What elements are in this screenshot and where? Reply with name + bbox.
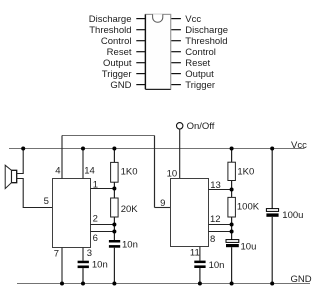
pin stub right 5 (171, 62, 181, 64)
svg-text:Reset: Reset (107, 47, 132, 58)
svg-text:4: 4 (55, 165, 60, 176)
junction dot pin1 node (112, 187, 116, 191)
svg-text:100K: 100K (237, 202, 260, 213)
junction dot C1/GND (112, 282, 116, 286)
svg-text:10n: 10n (122, 240, 138, 251)
pin 1 wire (91, 188, 115, 190)
pin stub left 3 (136, 40, 145, 42)
svg-text:Vcc: Vcc (185, 14, 201, 25)
wire R2 to capacitor C1 (113, 217, 115, 240)
capacitor C5 100u column from Vcc (271, 149, 273, 209)
junction dot pin2 node (112, 223, 116, 227)
capacitor C5 100u electrolytic plates (266, 209, 278, 212)
pin 12 wire (209, 224, 232, 226)
pin 13 wire (209, 189, 232, 191)
svg-text:On/Off: On/Off (187, 121, 215, 132)
wire On/Off to pin 10 (crosses Vcc rail) (179, 129, 181, 179)
pin stub right 7 (171, 84, 181, 86)
junction dot R1/Vcc (112, 147, 116, 151)
junction dot C3/GND (198, 282, 202, 286)
wire R4 to capacitor C4 (231, 217, 233, 240)
svg-text:13: 13 (210, 180, 221, 191)
pin 7 wire to GND (61, 248, 63, 284)
svg-text:Control: Control (185, 47, 216, 58)
speaker LS1 (5, 165, 17, 188)
svg-text:Discharge: Discharge (185, 25, 228, 36)
wire C5 to GND (271, 217, 273, 284)
junction dot C5/Vcc (270, 147, 274, 151)
svg-text:Output: Output (103, 58, 132, 69)
junction dot C5/GND (270, 282, 274, 286)
pin stub right 2 (171, 29, 181, 31)
wire pin4-to-pin9 top link (62, 135, 155, 137)
svg-text:12: 12 (210, 214, 221, 225)
svg-text:7: 7 (54, 248, 59, 259)
pin 11 wire to capacitor (199, 247, 201, 261)
junction dot pin7/GND (60, 282, 64, 286)
svg-text:8: 8 (210, 234, 215, 245)
svg-text:10: 10 (167, 168, 178, 179)
svg-text:2: 2 (93, 214, 98, 225)
pin stub left 2 (136, 29, 145, 31)
pin stub left 6 (136, 73, 145, 75)
svg-text:Threshold: Threshold (185, 36, 227, 47)
resistor R1 1K0 column from Vcc (113, 149, 115, 163)
wire speaker top terminal to Vcc rail (17, 149, 24, 174)
pin stub left 1 (136, 18, 145, 20)
junction dot speaker/Vcc (21, 147, 25, 151)
pin stub left 7 (136, 84, 145, 86)
junction dot pin13 node (230, 188, 234, 192)
svg-text:Discharge: Discharge (89, 14, 132, 25)
svg-text:Trigger: Trigger (102, 69, 132, 80)
resistor R3 1K0 body (228, 162, 236, 180)
svg-text:11: 11 (190, 247, 200, 258)
wire C1 to GND (113, 248, 115, 284)
svg-text:20K: 20K (121, 204, 139, 215)
pin stub right 3 (171, 40, 181, 42)
pin 14 wire (82, 149, 84, 179)
svg-text:1K0: 1K0 (121, 167, 138, 178)
junction dot pin8 node (230, 230, 234, 234)
resistor R1 1K0 body (111, 162, 119, 182)
svg-text:1K0: 1K0 (237, 166, 254, 177)
wire R1 to node pin1 (113, 182, 115, 198)
svg-text:14: 14 (84, 165, 95, 176)
svg-text:10n: 10n (209, 260, 225, 271)
timer block U1a (53, 179, 91, 248)
svg-text:1: 1 (93, 180, 98, 191)
wire GND rail (17, 283, 310, 285)
svg-text:Reset: Reset (185, 58, 210, 69)
junction dot pin6 node (112, 230, 116, 234)
pin 3 wire to capacitor (82, 248, 84, 261)
svg-text:6: 6 (93, 233, 98, 244)
pin stub left 4 (136, 51, 145, 53)
svg-text:GND: GND (110, 80, 131, 91)
svg-text:10u: 10u (241, 242, 257, 253)
capacitor C3 10n plates (pin 11) (194, 261, 205, 264)
DIP notch (153, 14, 163, 22)
pin 6 wire (91, 231, 115, 233)
wire Vcc rail (9, 148, 305, 150)
pin 8 wire (209, 231, 232, 233)
wire C3 to GND (199, 268, 201, 284)
svg-text:100u: 100u (282, 210, 303, 221)
timer block U1b (171, 179, 209, 247)
svg-text:Output: Output (185, 69, 214, 80)
svg-text:Trigger: Trigger (185, 80, 215, 91)
svg-text:9: 9 (160, 198, 165, 209)
pin stub right 6 (171, 73, 181, 75)
capacitor C4 10u electrolytic plates (226, 240, 239, 243)
svg-text:GND: GND (291, 274, 312, 285)
svg-text:Vcc: Vcc (291, 140, 307, 151)
capacitor C2 10n plates (pin 3) (78, 261, 89, 264)
wire C4 to GND (231, 247, 233, 283)
pin stub right 1 (171, 18, 181, 20)
wire C2 to GND (82, 268, 84, 283)
pin stub right 4 (171, 51, 181, 53)
junction dot R3/Vcc (230, 147, 234, 151)
wire speaker bottom terminal to pin 5 (17, 179, 53, 208)
wire R3 to pin13 node (231, 181, 233, 198)
pin 2 wire (91, 224, 115, 226)
pin stub left 5 (136, 62, 145, 64)
svg-text:Threshold: Threshold (89, 25, 131, 36)
svg-text:10n: 10n (92, 260, 108, 271)
junction dot pin14/Vcc (81, 147, 85, 151)
junction dot C4/GND (230, 282, 234, 286)
pin 4 wire (down from top link, crosses Vcc rail) (61, 136, 63, 179)
resistor R3 1K0 column from Vcc (231, 149, 233, 163)
junction dot pin12 node (230, 223, 234, 227)
op-amp U1 body (DIP-14 outline) (145, 14, 170, 89)
junction dot C2/GND (81, 282, 85, 286)
svg-text:5: 5 (44, 196, 49, 207)
svg-text:3: 3 (87, 248, 92, 259)
resistor R4 100K body (228, 197, 236, 217)
capacitor C1 10n plates (109, 240, 120, 243)
On/Off terminal (177, 123, 183, 129)
resistor R2 20K body (111, 198, 119, 217)
svg-text:Control: Control (101, 36, 132, 47)
